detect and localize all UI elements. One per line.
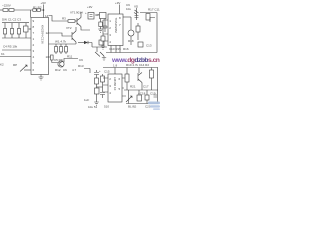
resistor R2	[37, 9, 40, 12]
capacitor C3	[18, 23, 20, 38]
wire bus bottom to pin 1	[2, 37, 31, 39]
svg-text:R18: R18	[128, 39, 134, 43]
resistor R8	[60, 44, 62, 54]
wire node B	[84, 69, 90, 74]
svg-text:BL 8Ω: BL 8Ω	[128, 105, 137, 109]
svg-text:10u 51: 10u 51	[88, 105, 98, 109]
capacitor C13	[138, 42, 143, 47]
svg-text:C20: C20	[145, 105, 151, 109]
svg-text:1uF: 1uF	[84, 98, 89, 102]
svg-text:10u: 10u	[126, 7, 131, 11]
svg-text:C10 R15: C10 R15	[109, 47, 121, 51]
capacitor C16b	[102, 20, 104, 46]
resistor R14	[95, 78, 99, 84]
svg-text:C17: C17	[143, 85, 149, 89]
resistor R6	[100, 19, 102, 23]
wire U1 pin to VT2	[49, 33, 73, 36]
wire	[124, 89, 158, 91]
svg-text:4.7: 4.7	[72, 68, 77, 72]
svg-text:+: +	[85, 11, 87, 15]
svg-text:RP: RP	[13, 63, 17, 67]
relay K box	[100, 13, 107, 19]
svg-text:+9V: +9V	[41, 1, 46, 5]
capacitor C7	[88, 13, 94, 20]
ground	[102, 56, 106, 61]
ground U1	[39, 75, 44, 81]
transistor VT6	[138, 68, 140, 74]
wire vertical right	[156, 13, 158, 53]
svg-text:W1 4.7k: W1 4.7k	[55, 40, 67, 44]
wire	[92, 43, 107, 48]
wire long	[103, 67, 158, 69]
svg-text:1 8: 1 8	[113, 64, 118, 68]
wire U1 right stub	[49, 56, 53, 58]
svg-text:VT2: VT2	[66, 26, 72, 30]
ground	[98, 29, 103, 32]
svg-text:~220V: ~220V	[2, 4, 11, 8]
svg-text:14: 14	[45, 14, 49, 18]
wire pins U3 left	[103, 78, 108, 92]
wire bus top	[2, 22, 29, 24]
svg-text:K1: K1	[1, 52, 5, 56]
svg-text:C9: C9	[79, 58, 83, 62]
ground	[94, 102, 99, 105]
wire	[130, 17, 132, 30]
resistor R22	[154, 95, 158, 97]
IC U3	[108, 74, 122, 102]
svg-text:R19 4.7k C14 R2: R19 4.7k C14 R2	[126, 63, 149, 67]
capacitor C12b	[100, 93, 105, 95]
wire pins left U2	[103, 20, 108, 41]
wire	[106, 52, 157, 54]
svg-text:R21: R21	[130, 85, 136, 89]
svg-text:K2: K2	[0, 63, 4, 67]
svg-text:R12: R12	[55, 68, 61, 72]
speaker BL	[128, 90, 130, 104]
svg-text:9014: 9014	[76, 11, 83, 15]
wire pin 3	[0, 56, 31, 58]
transistor VT2	[72, 31, 76, 42]
svg-text:R13: R13	[78, 64, 84, 68]
svg-text:C13: C13	[146, 44, 152, 48]
wire pin bus	[49, 43, 77, 45]
capacitor C12	[136, 26, 140, 32]
IC U2	[108, 14, 123, 46]
wire join	[97, 86, 103, 88]
svg-text:+9V: +9V	[87, 5, 92, 9]
resistor R15	[102, 74, 104, 76]
transistor VT3	[95, 47, 100, 57]
capacitor C2	[11, 23, 13, 38]
resistor R9	[65, 44, 67, 54]
wire to IC top	[30, 10, 32, 18]
svg-text:KA2284 C136: KA2284 C136	[41, 25, 45, 44]
capacitor C11	[95, 88, 100, 94]
capacitor C19	[146, 90, 148, 95]
wire U1 right pin to R3	[49, 16, 69, 22]
svg-text:TDA2822M: TDA2822M	[114, 18, 118, 34]
transistor VT4	[58, 61, 64, 67]
diode VD2	[78, 42, 84, 44]
wire stubs below U2	[111, 46, 120, 53]
capacitor C10	[96, 70, 98, 72]
wire	[14, 9, 44, 11]
svg-text:C15: C15	[104, 70, 110, 74]
resistor R10	[99, 40, 104, 45]
capacitor C14	[146, 14, 150, 21]
svg-text:+9V: +9V	[115, 1, 120, 5]
transistor VT1	[77, 18, 81, 27]
capacitor C18	[138, 90, 140, 95]
svg-text:LM386 10: LM386 10	[113, 77, 117, 91]
resistor R20	[126, 68, 128, 75]
resistor R7	[55, 44, 57, 54]
IC U1	[31, 18, 49, 75]
svg-text:R17 C11: R17 C11	[148, 8, 160, 12]
wire top U3	[114, 68, 116, 75]
wire	[52, 59, 78, 63]
resistor R4	[24, 26, 29, 32]
capacitor C16	[151, 68, 153, 71]
svg-text:C4 R5 10k: C4 R5 10k	[3, 45, 18, 49]
svg-text:R11: R11	[67, 55, 73, 59]
wire pin right U2	[123, 16, 131, 18]
wire top right	[140, 12, 157, 14]
wire pins U3 right	[122, 78, 127, 96]
wire pin 2	[2, 49, 31, 51]
svg-text:+: +	[99, 69, 101, 73]
wire bottom	[126, 103, 158, 105]
capacitor C1	[4, 23, 6, 38]
wire pin 4	[24, 69, 31, 71]
fuse F1	[0, 9, 3, 11]
svg-text:C6: C6	[63, 68, 67, 72]
svg-text:VT1: VT1	[70, 11, 76, 15]
svg-text:510: 510	[104, 105, 109, 109]
watermark remnant blue	[148, 102, 160, 111]
transistor VT5	[128, 30, 134, 36]
potentiometer RP1	[20, 65, 27, 72]
capacitor C5	[51, 55, 54, 60]
svg-text:R3: R3	[62, 17, 66, 21]
capacitor C8	[104, 19, 106, 27]
svg-text:DW C1 C2 C3: DW C1 C2 C3	[2, 18, 21, 22]
svg-text:R16: R16	[123, 47, 129, 51]
